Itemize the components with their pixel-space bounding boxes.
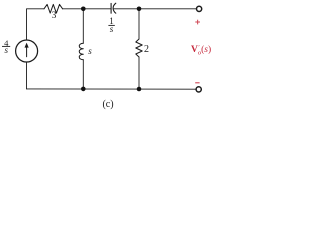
caption (c) [100,99,116,110]
wire top rail left segment [27,9,45,40]
junction dot bottom B [137,87,142,92]
polarity plus sign [195,20,200,25]
label 1 (cap value numerator) [107,16,116,26]
label s (cap value denominator) [107,24,116,34]
wire top rail right segment [113,8,196,10]
wire inductor branch top [82,9,84,43]
junction dot top B [137,7,142,12]
node voltage Vo'(s) [191,46,211,55]
label 4 (source value numerator) [2,38,10,48]
wire top rail to capacitor [63,8,111,10]
wire inductor branch bottom [82,60,84,89]
fraction bar 1/s [108,24,114,26]
current source arrow [26,47,28,57]
label 3 (resistor value) [49,11,59,21]
resistor R (2) zigzag [136,39,142,57]
junction dot top A [81,7,86,12]
terminal bottom right [196,87,201,92]
resistor R (3) [44,4,63,13]
current source arrowhead [25,43,29,48]
wire resistor-2 branch top [138,9,140,39]
polarity minus sign [195,82,199,84]
capacitor C (1/s) left plate [110,3,112,13]
junction dot bottom A [81,87,86,92]
fraction bar 4/s [2,45,10,47]
label s (source value denominator) [2,45,10,55]
terminal top right [197,6,202,11]
current source I (4/s) circle [16,40,38,62]
capacitor C (1/s) right curved plate [113,3,116,13]
wire bottom rail [27,88,196,90]
label s (inductor value) [86,46,94,56]
wire resistor-2 branch bottom [138,57,140,89]
label 2 (resistor value) [142,44,151,55]
inductor L (s) coil [79,43,83,60]
wire left branch lower [26,62,28,89]
